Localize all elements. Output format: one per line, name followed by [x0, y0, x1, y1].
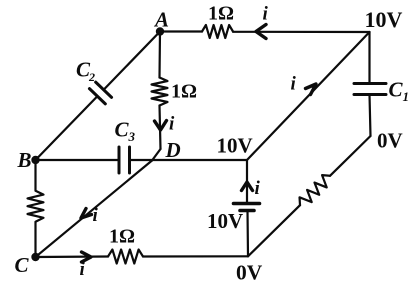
node B (junction dot) — [31, 156, 39, 164]
wire bottom edge C to 0V corner — [36, 255, 249, 258]
current arrow i on D-C diagonal (pointing down-left) — [81, 209, 92, 219]
current arrow i (pointing down toward D) — [155, 121, 167, 131]
wire vertical B to C — [34, 160, 36, 257]
wire horizontal C3 through D to front 10V node — [130, 159, 248, 161]
wire top edge A to TR corner — [160, 30, 370, 33]
battery cell 10V (short plate) — [240, 209, 254, 213]
resistor (diagonal lower-right edge, unlabeled) — [296, 172, 334, 210]
svg-text:i: i — [263, 4, 269, 25]
svg-text:i: i — [93, 205, 99, 226]
node C (junction dot) — [31, 253, 39, 261]
wire vertical A to D — [152, 32, 161, 161]
wire right edge from C1 down to 0V corner — [370, 95, 371, 137]
svg-text:0V: 0V — [236, 260, 263, 284]
svg-text:1Ω: 1Ω — [208, 3, 234, 25]
battery cell 10V (long plate) — [234, 202, 260, 206]
resistor R3 1ohm (bottom edge) — [108, 250, 143, 264]
svg-text:i: i — [255, 178, 261, 199]
capacitor C1 (right edge) — [354, 84, 386, 95]
wire battery to bottom 0V corner — [246, 211, 249, 257]
wire front 10V node down to battery — [246, 160, 248, 204]
capacitor C2 (on A-B diagonal) — [89, 82, 111, 104]
resistor R1 1ohm (top edge, between A and 10V corner) — [202, 25, 233, 38]
svg-text:i: i — [80, 259, 86, 280]
svg-text:C1: C1 — [389, 78, 410, 105]
resistor R2 1ohm (vertical below A) — [152, 78, 168, 106]
resistor (left edge B-C, unlabeled) — [28, 191, 44, 222]
wire horizontal B to C3 — [36, 159, 120, 161]
svg-text:1Ω: 1Ω — [171, 80, 197, 102]
wire diagonal from 10V top corner to front 10V node — [247, 32, 370, 160]
svg-text:1Ω: 1Ω — [109, 225, 135, 247]
svg-text:A: A — [153, 8, 169, 32]
current arrow i on diagonal (pointing up-right) — [306, 84, 317, 95]
svg-text:10V: 10V — [365, 7, 403, 32]
svg-text:i: i — [291, 74, 297, 95]
wire diagonal D to C — [36, 161, 153, 258]
node A (junction dot) — [156, 27, 164, 35]
svg-text:C: C — [15, 253, 30, 277]
svg-text:C2: C2 — [76, 58, 95, 85]
svg-text:0V: 0V — [377, 129, 403, 153]
wire right edge from 10V corner down to C1 — [368, 32, 370, 84]
svg-text:D: D — [165, 138, 181, 162]
current arrow i on top edge (pointing left) — [256, 25, 266, 39]
svg-text:B: B — [17, 148, 32, 172]
current arrow i on bottom edge (pointing right) — [82, 252, 92, 262]
svg-text:10V: 10V — [217, 134, 253, 158]
svg-text:C3: C3 — [115, 118, 136, 145]
wire diagonal A to B — [36, 32, 161, 161]
svg-text:10V: 10V — [207, 209, 243, 233]
capacitor C3 (on B-D wire) — [119, 147, 130, 173]
current arrow i (pointing up toward 10V node) — [242, 182, 253, 191]
svg-text:i: i — [169, 114, 175, 135]
wire diagonal from right 0V corner to bottom 0V corner — [248, 136, 371, 256]
